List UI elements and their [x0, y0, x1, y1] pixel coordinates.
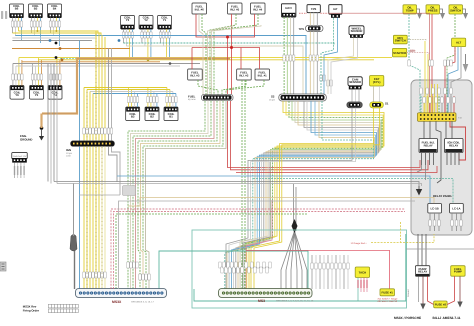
wires: coil Y1 pins down [160, 29, 169, 60]
wheel sensor [349, 26, 364, 38]
teal box around MS3 [192, 230, 407, 308]
rev switch [393, 35, 407, 44]
yellow band to T10 [425, 41, 438, 113]
ALT wires [445, 47, 461, 113]
relay output wires [417, 165, 447, 180]
mid horizontal wires to relay panel [54, 166, 453, 289]
oil temp sender [403, 5, 417, 14]
wires: coil Y2 pins down [142, 29, 151, 60]
cam sensor wires [352, 89, 359, 102]
fuel injector #5 [228, 3, 243, 14]
label ENG GROUND [20, 134, 32, 142]
svg-text:RELAY: RELAY [449, 144, 458, 148]
ALT [452, 38, 466, 47]
svg-text:B4: B4 [53, 7, 57, 11]
svg-text:conn: conn [66, 155, 72, 158]
junction orange [59, 47, 62, 50]
connector MS3X [76, 289, 167, 298]
oil press sender [426, 5, 440, 14]
wire: teal dashed bus y58.2 [60, 57, 180, 59]
wire: blue bus y35.5 [15, 36, 306, 95]
eng ground splice [40, 126, 44, 130]
svg-text:INJ. #4: INJ. #4 [253, 8, 262, 12]
connector FUEL [202, 94, 234, 100]
wires below cam/S1 connectors heading left [226, 108, 380, 289]
IACV box [281, 4, 296, 17]
wires: coil B5 pins down [31, 18, 40, 43]
left edge wire labels [1, 11, 7, 19]
TPS connector [299, 25, 324, 31]
label MS3X [112, 300, 155, 304]
ignition yellow band vertical to IGN connector [80, 31, 112, 141]
svg-text:Y3: Y3 [126, 18, 130, 22]
LC-1B [428, 204, 442, 214]
teal wire long bottom [194, 234, 406, 301]
svg-text:LC-1A: LC-1A [452, 207, 460, 211]
svg-text:INJ. #5: INJ. #5 [230, 8, 239, 12]
fuel inj relay pins [422, 153, 434, 166]
svg-text:RELAY PANEL: RELAY PANEL [433, 194, 453, 198]
svg-text:Y5: Y5 [35, 93, 39, 97]
wire: gray bus y40.5 [12, 40, 92, 42]
wires: coil Y4 pins up [51, 58, 60, 86]
pump relay wires down [419, 277, 434, 305]
injector red feed wires [192, 14, 260, 94]
wire labels above MS3 left [219, 262, 271, 273]
wire labels below IGN bundle [83, 272, 106, 278]
fuel inj relay [419, 139, 438, 153]
wire: white bus y66 [16, 65, 180, 67]
TPS wires [310, 13, 317, 94]
svg-text:RELAY: RELAY [424, 144, 433, 148]
svg-text:FUEL: FUEL [188, 95, 196, 99]
oil temp ground arrow [417, 9, 423, 19]
CKT crank sensor box [370, 76, 384, 87]
splice blob [70, 184, 77, 290]
svg-text:Firing Order: Firing Order [23, 308, 40, 312]
tach wires [358, 278, 367, 302]
wires below switched connector [15, 163, 25, 178]
svg-text:PUMP: PUMP [454, 270, 462, 274]
IAT wires [321, 18, 337, 94]
junction black [55, 42, 58, 45]
central extra wires to MS3 [240, 80, 272, 289]
ground arrow top right [463, 54, 469, 72]
svg-text:STARTER: STARTER [393, 51, 406, 55]
wires: coil Y3 pins down [123, 29, 132, 60]
svg-text:MS3X: MS3X [112, 300, 122, 304]
svg-text:GROUNDS 1, 2, 7, 8, 9, 10, 11: GROUNDS 1, 2, 7, 8, 9, 10, 11, 12, 13 [276, 300, 314, 303]
red loop right of T10 [450, 121, 466, 160]
coil B5 [29, 4, 43, 18]
svg-text:INJ. #1: INJ. #1 [258, 74, 267, 78]
wire: yellow bus y31 [18, 31, 98, 33]
tiny edge component bottom-left [0, 262, 6, 271]
wire: teal bus y43 [123, 43, 334, 45]
oil switch ground arrow [463, 9, 469, 19]
yellow bus into B coils y87-95 [84, 88, 176, 94]
svg-text:12 Gauge Red +: 12 Gauge Red + [351, 242, 368, 245]
wire: orange bus y60 short [22, 61, 160, 63]
pump relay wires up [418, 234, 426, 266]
pump ground arrow [420, 304, 425, 310]
coil B1 [164, 107, 178, 121]
coil B3 [126, 107, 140, 121]
coil Y1 [158, 15, 172, 29]
wire: white bus y38 [12, 37, 95, 39]
connector MS3 [219, 289, 313, 298]
bundle below S2 staircase right then returning left to MS3 [225, 101, 384, 289]
svg-text:S2: S2 [271, 95, 275, 99]
starter [393, 48, 407, 57]
LC-1B pins [430, 213, 439, 231]
bundle below FUEL turning left [128, 101, 226, 289]
svg-text:S1: S1 [385, 102, 389, 106]
junction blue2 [118, 39, 121, 42]
fuel injector #6 [192, 3, 207, 14]
CKT wires [374, 86, 380, 102]
svg-text:ORSCHE: ORSCHE [408, 316, 422, 320]
svg-text:SWITCH: SWITCH [450, 8, 461, 12]
label FUEL [188, 95, 196, 102]
wires T10 to relays [424, 121, 452, 183]
gray wire mid [79, 195, 415, 289]
label S2 [269, 95, 276, 102]
gray wires above MS3 right [312, 255, 348, 289]
injector signal green wires [198, 14, 264, 95]
oil press ground arrow [440, 9, 446, 19]
firing order boxes row1 [48, 304, 78, 308]
yellow bus junction dots [36, 30, 38, 32]
svg-text:16 pin: 16 pin [269, 99, 276, 102]
svg-text:B5: B5 [34, 7, 38, 11]
coil B6 [10, 4, 24, 18]
svg-text:Ground: Ground [407, 289, 410, 297]
fuel pump ground arrow [457, 302, 462, 308]
svg-text:MS3: MS3 [258, 299, 265, 303]
svg-text:B2: B2 [150, 115, 154, 119]
eng ground arrow [39, 130, 44, 141]
firing order boxes row2 [48, 309, 78, 313]
relay panel [411, 80, 472, 235]
LC-1A pins [452, 213, 461, 231]
svg-text:AMES: AMES [443, 316, 452, 320]
wire labels left of MS3X bundle [127, 262, 150, 280]
wire: yellow bus y59.8 [38, 59, 374, 61]
cam connector [347, 102, 363, 108]
svg-text:All Fuses = Gas Pdl: All Fuses = Gas Pdl [378, 300, 398, 303]
svg-text:TPS: TPS [299, 27, 305, 31]
label IGN [66, 148, 73, 158]
svg-text:Y2: Y2 [144, 18, 148, 22]
tach [355, 267, 369, 278]
svg-text:FUSE #1: FUSE #1 [382, 291, 394, 295]
wire labels row coils top [11, 21, 60, 27]
yellow dashed tach wire [371, 234, 434, 243]
svg-text:Y1: Y1 [163, 18, 167, 22]
svg-text:IGN: IGN [66, 148, 71, 152]
fuel injector #3 [188, 69, 203, 80]
injector red junctions [226, 36, 229, 39]
coil Y2 [139, 15, 153, 29]
wires: coil B2 pins up [148, 88, 157, 108]
svg-text:ALT: ALT [456, 41, 462, 45]
svg-text:B3: B3 [131, 115, 135, 119]
coil Y4 (inverted row) [48, 86, 62, 100]
teal wire MS3X to MS3 [159, 251, 308, 289]
title text [394, 316, 461, 320]
injector white wires [199, 14, 261, 95]
svg-text:FUSE #2: FUSE #2 [435, 303, 447, 307]
svg-text:GROUND: GROUND [20, 138, 32, 142]
wire labels above IGN [83, 128, 113, 134]
svg-text:RELAY: RELAY [418, 270, 427, 274]
fuse #1 [380, 289, 395, 296]
big tan ground wire [42, 59, 230, 114]
shield drain fan [281, 184, 307, 289]
TPS box [307, 5, 320, 13]
IACV wires [284, 17, 294, 94]
svg-text:12V+: 12V+ [410, 50, 416, 53]
svg-text:IAT: IAT [333, 7, 338, 11]
wire: gray bus y63.5 [13, 63, 200, 65]
starter wire [407, 50, 429, 54]
svg-text:MS3X / P: MS3X / P [394, 316, 408, 320]
svg-text:TACH: TACH [359, 271, 367, 275]
oil switch [449, 5, 463, 14]
pump relay [415, 266, 429, 277]
svg-text:TEMP: TEMP [406, 8, 414, 12]
wires into T10 comb [421, 96, 454, 113]
CKT connector S1 [370, 102, 389, 108]
svg-text:INJ. #2: INJ. #2 [239, 74, 248, 78]
svg-text:SENSOR: SENSOR [351, 29, 363, 33]
svg-text:INJ. #6: INJ. #6 [195, 8, 204, 12]
coil B2 [145, 107, 159, 121]
oil sender wires down [409, 14, 455, 113]
red pair down from injectors [228, 101, 429, 170]
label MS3 [258, 299, 314, 303]
fuel injector #2 [237, 69, 252, 80]
wires: coil B1 pins up [167, 88, 176, 108]
svg-text:IACV: IACV [285, 6, 292, 10]
LC-1A [450, 204, 464, 214]
coil Y6 (inverted row) [10, 86, 24, 100]
ign coil relay pins [447, 153, 459, 166]
svg-text:TPS: TPS [311, 7, 317, 11]
wire labels row coils Y [122, 32, 170, 38]
small gray splice block on yellow band [123, 186, 136, 196]
svg-text:LC-1B: LC-1B [430, 207, 438, 211]
tick marks on yellow ign wires [87, 34, 102, 288]
wire labels above row2 coils [12, 74, 61, 80]
svg-text:GROUNDS 3, 8, 15, 17: GROUNDS 3, 8, 15, 17 [131, 301, 155, 304]
wires: coil Y5 pins up [32, 58, 41, 86]
connector IGN [71, 141, 115, 147]
rev switch wire [407, 40, 426, 42]
svg-text:(CYL): (CYL) [373, 80, 381, 84]
svg-text:2-7-11: 2-7-11 [452, 316, 461, 320]
wires: coil B4 pins down [50, 18, 59, 46]
gray ground bundle left [48, 64, 57, 184]
wires: coil B6 pins down [12, 18, 21, 40]
junction blue [49, 39, 52, 42]
wire: yellow bus y33 [12, 33, 101, 35]
cam sensor [348, 77, 362, 90]
fuel injector #1 [255, 69, 270, 80]
wires: coil B3 pins up [129, 88, 138, 108]
junction dots on lower bus [55, 56, 58, 59]
wires: coil Y6 pins up [13, 58, 22, 86]
fuel pump wires [447, 276, 460, 304]
red 12 gauge wire [246, 250, 390, 289]
ign coil relay [445, 139, 464, 153]
svg-text:PRESS: PRESS [428, 8, 438, 12]
wheel sensor wires [328, 38, 358, 94]
svg-text:SWITCH: SWITCH [395, 39, 406, 43]
svg-text:Switched 12V: Switched 12V [13, 155, 27, 158]
svg-text:B1: B1 [169, 115, 173, 119]
switched 12V connector [12, 153, 27, 163]
connector T10 [418, 113, 463, 122]
gray wire right of teal box [406, 248, 474, 250]
MS3X rev text [23, 304, 40, 312]
svg-text:inj conn: inj conn [188, 98, 196, 101]
chip row upper on T10 feeders [408, 60, 452, 66]
red dashed aux wire [111, 209, 405, 289]
coil Y5 (inverted row) [30, 86, 44, 100]
fuel pump [451, 266, 465, 277]
wire: white bus y46 [126, 46, 303, 94]
svg-text:SENSOR: SENSOR [349, 80, 361, 84]
svg-text:INJ. #3: INJ. #3 [190, 74, 199, 78]
fuse #2 [434, 301, 447, 308]
svg-text:J: J [440, 316, 442, 320]
coil Y3 [121, 15, 135, 29]
svg-text:Y6: Y6 [15, 93, 19, 97]
fuse #1 note [378, 298, 399, 304]
IAT box [329, 5, 342, 18]
connector S2 [279, 94, 327, 101]
wire: orange bus y48.5 [12, 48, 130, 50]
coil B4 [48, 4, 62, 18]
red vertical from TPS to T10 [430, 13, 432, 113]
wire labels above B coils [127, 97, 177, 103]
yellow band below IGN to MS3X [80, 146, 121, 289]
red wire at TPS [299, 12, 328, 14]
wire: yellow bus y57.5 long to starter [19, 57, 392, 59]
yellow dashed stub below panel [400, 222, 402, 243]
svg-text:B6: B6 [15, 7, 19, 11]
fuel injector #4 [251, 3, 266, 14]
ground arrow in panel [416, 186, 422, 196]
